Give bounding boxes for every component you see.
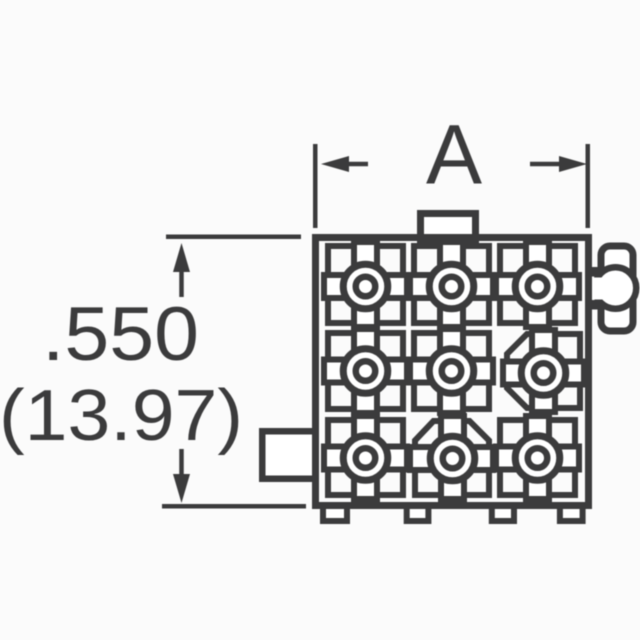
- pin cavity 3-2 contact: [410, 416, 493, 499]
- pin cavity 1-3 outline: [500, 246, 575, 323]
- extension line top of dim .550: [166, 235, 301, 240]
- extension line left of dim A: [313, 144, 318, 228]
- svg-text:A: A: [426, 108, 482, 202]
- pin cavity 1-2 contact: [410, 242, 493, 327]
- pin cavity 1-1 contact: [324, 242, 407, 327]
- bottom standoff tab 3: [492, 505, 514, 521]
- latch band: [601, 246, 633, 331]
- bottom standoff tab 1: [323, 505, 347, 521]
- dimension arrow A left: [321, 156, 368, 172]
- pin cavity 3-2 outline: [415, 421, 489, 495]
- pin cavity 2-1 contact: [324, 329, 407, 413]
- extension line bottom of dim .550: [162, 504, 306, 509]
- dimension label A: [426, 108, 482, 202]
- pin cavity 3-1 contact: [324, 416, 407, 499]
- pin cavity 2-3 contact: [503, 330, 584, 412]
- dimension arrow .550 down: [173, 449, 190, 503]
- dimension arrow A right: [530, 156, 587, 172]
- dimension label .550: [42, 292, 199, 377]
- latch stub bottom: [586, 300, 603, 310]
- svg-text:(13.97): (13.97): [0, 376, 243, 456]
- dimension label (13.97): [0, 376, 243, 456]
- pin cavity 2-2 outline: [414, 333, 489, 409]
- dimension arrow .550 up: [173, 243, 190, 297]
- pin cavity 1-2 outline: [414, 246, 489, 323]
- pin cavity 1-1 outline: [328, 246, 403, 323]
- pin cavity 2-2 contact: [410, 329, 493, 413]
- pin cavity 1-3 contact: [496, 242, 579, 327]
- bottom standoff tab 4: [560, 505, 583, 521]
- pin cavity 2-1 outline: [328, 333, 403, 409]
- polarization rib on top of housing: [421, 214, 476, 241]
- pin cavity 2-3 outline: [507, 334, 580, 408]
- pin cavity 3-1 outline: [328, 420, 403, 495]
- pin cavity 3-3 outline: [500, 420, 575, 495]
- extension line right of dim A: [586, 144, 591, 228]
- latch stub top: [586, 267, 603, 277]
- connector housing body: [316, 238, 589, 506]
- svg-text:.550: .550: [42, 292, 199, 377]
- latch circle: [590, 267, 637, 309]
- pin cavity 3-3 contact: [496, 416, 579, 499]
- bottom standoff tab 2: [407, 505, 429, 521]
- mounting boss left side of housing: [262, 431, 316, 479]
